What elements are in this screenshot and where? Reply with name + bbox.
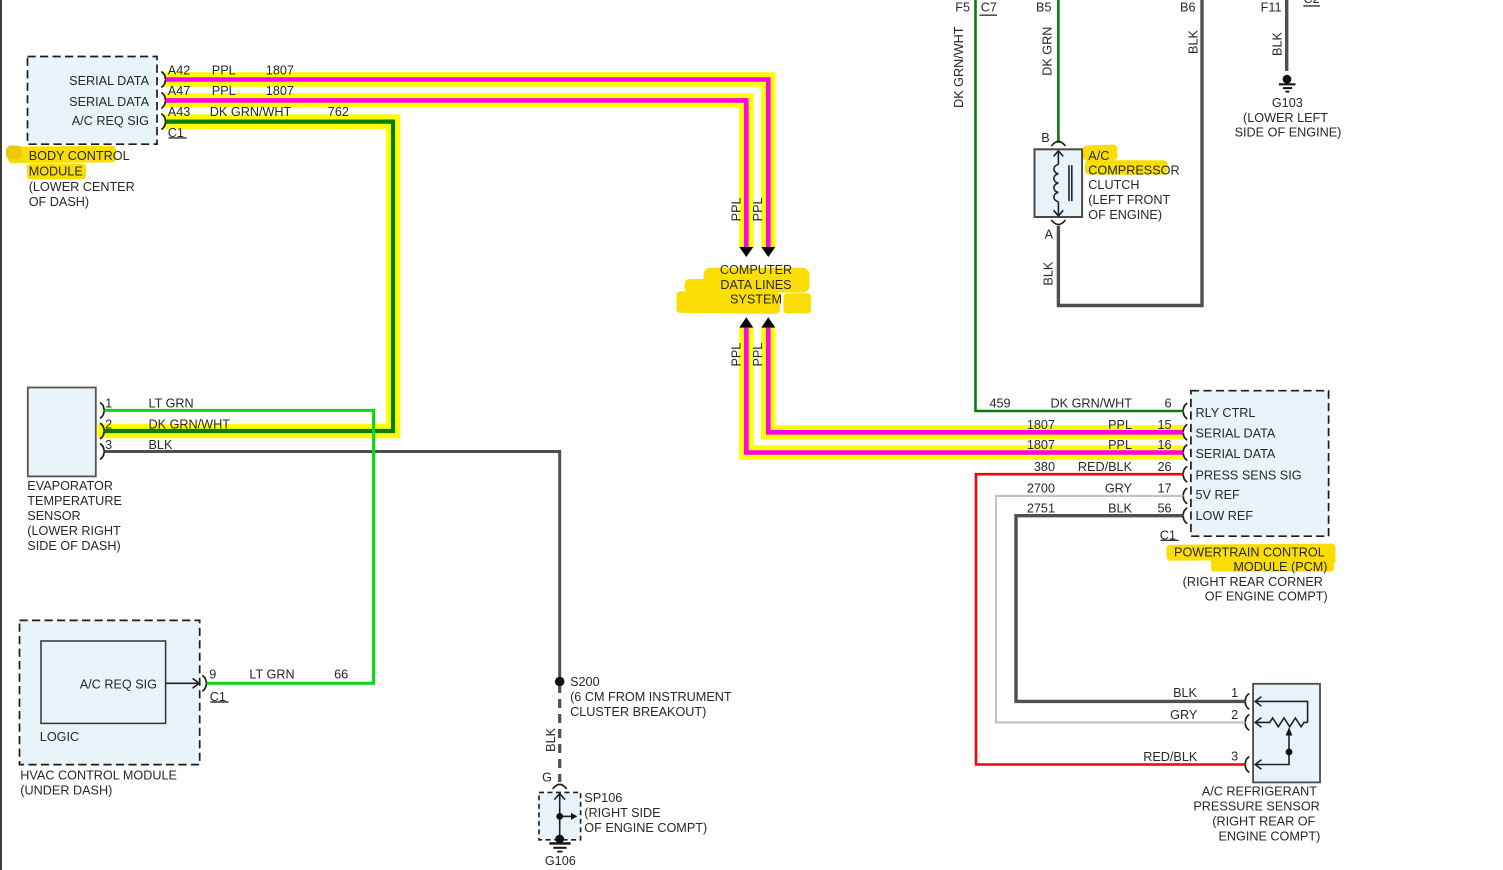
svg-text:(LOWER LEFT: (LOWER LEFT (1243, 111, 1328, 125)
svg-text:BLK: BLK (1186, 29, 1200, 53)
connector pin A at A/C compressor clutch (1052, 221, 1065, 225)
svg-text:S200: S200 (570, 675, 600, 689)
SP106 splice pack box (539, 792, 581, 839)
svg-text:9: 9 (209, 668, 216, 682)
svg-text:B6: B6 (1180, 0, 1195, 14)
svg-text:EVAPORATOR: EVAPORATOR (27, 479, 113, 493)
svg-text:66: 66 (334, 668, 348, 682)
svg-text:459: 459 (990, 396, 1011, 410)
svg-text:ENGINE COMPT): ENGINE COMPT) (1218, 830, 1320, 844)
BCM pin numbers and wire labels (168, 63, 349, 119)
wire: GRY 2700, PCM pin 17 to pressure sensor pin 2 (996, 496, 1246, 723)
arrowhead: serial data into computer data lines (right, up) (761, 317, 775, 327)
pressure sensor pin labels (1143, 686, 1238, 764)
svg-text:A47: A47 (168, 84, 191, 98)
svg-text:RLY CTRL: RLY CTRL (1196, 406, 1256, 420)
svg-text:5V REF: 5V REF (1196, 488, 1241, 502)
svg-text:CLUSTER BREAKOUT): CLUSTER BREAKOUT) (570, 705, 706, 719)
HVAC logic block (41, 641, 166, 723)
svg-text:(UNDER DASH): (UNDER DASH) (20, 784, 112, 798)
svg-text:15: 15 (1157, 418, 1171, 432)
svg-text:CLUTCH: CLUTCH (1088, 178, 1139, 192)
svg-text:PPL: PPL (1108, 438, 1132, 452)
svg-text:17: 17 (1157, 482, 1171, 496)
svg-text:PPL: PPL (212, 84, 236, 98)
svg-text:A/C REFRIGERANT: A/C REFRIGERANT (1202, 785, 1317, 799)
pressure sensor potentiometer symbol (1255, 697, 1307, 770)
svg-text:LOW REF: LOW REF (1196, 509, 1254, 523)
svg-text:2751: 2751 (1027, 501, 1055, 515)
evaporator sensor pin labels (105, 397, 230, 452)
svg-text:(LEFT FRONT: (LEFT FRONT (1088, 193, 1170, 207)
svg-text:GRY: GRY (1170, 708, 1198, 722)
PPL vertical wire labels (730, 197, 765, 366)
A/C compressor clutch box (1035, 149, 1083, 217)
svg-text:A: A (1045, 228, 1054, 242)
wire: RED/BLK 380, PCM pin 26 to pressure sensor pin 3 (976, 474, 1246, 764)
wire: DK GRN/WHT 459, fuse block F5/C7 to PCM pin 6 (RLY CTRL) (976, 0, 1184, 411)
node: COMPUTER DATA LINES SYSTEM (720, 263, 792, 306)
connector C1 pin 9 at HVAC control module (203, 676, 206, 691)
svg-text:RED/BLK: RED/BLK (1078, 460, 1133, 474)
evaporator sensor caption (27, 479, 122, 553)
svg-text:(LOWER RIGHT: (LOWER RIGHT (27, 524, 121, 538)
HVAC A/C REQ SIG output arrow (166, 678, 200, 688)
svg-text:TEMPERATURE: TEMPERATURE (27, 494, 122, 508)
svg-text:3: 3 (105, 438, 112, 452)
arrowhead: serial data into computer data lines (left, down) (739, 247, 753, 257)
PCM wire labels and pin numbers (990, 396, 1172, 515)
svg-text:DATA LINES: DATA LINES (720, 278, 791, 292)
svg-text:A/C REQ SIG: A/C REQ SIG (72, 114, 149, 128)
svg-text:BLK: BLK (1271, 31, 1285, 55)
connector C1 pins at PCM (1183, 404, 1186, 524)
svg-text:SERIAL DATA: SERIAL DATA (1196, 426, 1276, 440)
BCM pin name labels (69, 74, 149, 128)
svg-text:GRY: GRY (1105, 482, 1133, 496)
svg-text:G103: G103 (1272, 96, 1303, 110)
wire: PPL 1807 circuit, BCM A47 to PCM pin 16 (yellow highlighted) (165, 100, 1184, 452)
highlighter mark: COMPUTER DATA LINES SYSTEM label (676, 268, 811, 314)
svg-text:SIDE OF DASH): SIDE OF DASH) (27, 539, 120, 553)
svg-text:A42: A42 (168, 63, 191, 77)
connector pins at pressure sensor (1245, 694, 1248, 772)
PCM caption (1174, 546, 1328, 604)
wire: BLK, A/C compressor clutch pin A to connector B6 (1058, 0, 1202, 306)
arrowhead: serial data into computer data lines (right, down) (761, 247, 775, 257)
svg-text:SIDE OF ENGINE): SIDE OF ENGINE) (1235, 126, 1342, 140)
svg-text:BLK: BLK (1042, 261, 1056, 285)
svg-text:DK GRN/WHT: DK GRN/WHT (210, 105, 292, 119)
svg-text:LT GRN: LT GRN (249, 668, 294, 682)
svg-text:POWERTRAIN CONTROL: POWERTRAIN CONTROL (1174, 546, 1325, 560)
arrowhead: serial data into computer data lines (left, up) (739, 317, 753, 327)
svg-text:56: 56 (1157, 501, 1171, 515)
svg-text:2700: 2700 (1027, 482, 1055, 496)
svg-text:PPL: PPL (730, 197, 744, 221)
evaporator temperature sensor box (28, 388, 96, 477)
HVAC caption (20, 769, 177, 798)
svg-text:BLK: BLK (1108, 501, 1132, 515)
wire: BLK, evaporator temp sensor pin 3 to splice S200 (104, 452, 560, 682)
top connector labels F11 C2 (1261, 0, 1320, 14)
svg-text:SP106: SP106 (584, 791, 622, 805)
svg-text:(RIGHT REAR OF: (RIGHT REAR OF (1212, 815, 1315, 829)
wire: LT GRN 66, evaporator temp sensor pin 1 to HVAC control module pin 9 (104, 410, 374, 683)
svg-text:1: 1 (1231, 686, 1238, 700)
svg-text:26: 26 (1157, 460, 1171, 474)
svg-text:BLK: BLK (149, 438, 173, 452)
svg-text:HVAC CONTROL MODULE: HVAC CONTROL MODULE (20, 769, 177, 783)
svg-text:16: 16 (1157, 438, 1171, 452)
svg-text:PPL: PPL (751, 343, 765, 367)
ground G106 (549, 835, 570, 852)
connector C1 pins at BCM (162, 72, 165, 129)
svg-text:(LOWER CENTER: (LOWER CENTER (29, 180, 135, 194)
SP106 caption (584, 791, 707, 835)
svg-text:BLK: BLK (1173, 686, 1197, 700)
svg-text:SERIAL DATA: SERIAL DATA (69, 95, 149, 109)
svg-text:SERIAL DATA: SERIAL DATA (69, 74, 149, 88)
svg-text:SENSOR: SENSOR (27, 509, 80, 523)
connector G at SP106 (553, 784, 566, 788)
ground G103 labels (1235, 96, 1342, 140)
svg-text:1807: 1807 (266, 63, 294, 77)
svg-text:PRESSURE SENSOR: PRESSURE SENSOR (1193, 800, 1319, 814)
svg-text:2: 2 (105, 417, 112, 431)
svg-text:380: 380 (1034, 460, 1055, 474)
svg-text:PPL: PPL (212, 63, 236, 77)
svg-text:DK GRN/WHT: DK GRN/WHT (1051, 396, 1133, 410)
svg-text:DK GRN: DK GRN (1041, 27, 1055, 76)
svg-text:1807: 1807 (1027, 418, 1055, 432)
svg-text:A43: A43 (168, 105, 191, 119)
svg-text:(RIGHT REAR CORNER: (RIGHT REAR CORNER (1183, 575, 1323, 589)
splice S200 (555, 677, 565, 687)
svg-text:B: B (1041, 131, 1049, 145)
powertrain control module box (1191, 391, 1329, 537)
svg-text:DK GRN/WHT: DK GRN/WHT (149, 417, 231, 431)
BCM connector label C1 (168, 126, 187, 140)
A/C compressor clutch coil symbol (1054, 151, 1072, 216)
PCM connector label C1 (1160, 528, 1179, 542)
pressure sensor caption (1193, 785, 1320, 844)
svg-text:LT GRN: LT GRN (149, 397, 194, 411)
svg-text:A/C REQ SIG: A/C REQ SIG (80, 678, 157, 692)
A/C refrigerant pressure sensor box (1253, 684, 1320, 783)
svg-text:OF ENGINE COMPT): OF ENGINE COMPT) (1205, 590, 1328, 604)
wire: BLK dashed, S200 to SP106 splice pack (558, 684, 561, 782)
svg-text:G: G (542, 771, 552, 785)
body control module box (28, 57, 158, 145)
svg-text:BLK: BLK (544, 727, 558, 751)
svg-text:F5: F5 (955, 0, 970, 14)
svg-text:SERIAL DATA: SERIAL DATA (1196, 447, 1276, 461)
connector pin B at A/C compressor clutch (1052, 142, 1065, 146)
ground G103 (1279, 75, 1296, 92)
svg-text:1: 1 (105, 397, 112, 411)
HVAC connector label C1 (210, 690, 229, 704)
svg-text:LOGIC: LOGIC (40, 730, 79, 744)
svg-text:BODY CONTROL: BODY CONTROL (29, 149, 130, 163)
svg-text:1807: 1807 (1027, 438, 1055, 452)
svg-text:3: 3 (1231, 750, 1238, 764)
highlighter mark: BODY CONTROL MODULE label (6, 146, 116, 180)
svg-text:DK GRN/WHT: DK GRN/WHT (952, 26, 966, 108)
wire: DK GRN/WHT 762, BCM A43 to evaporator temp sensor pin 2 (yellow highlighted) (98, 122, 394, 431)
wire: BLK 2751, PCM pin 56 to pressure sensor pin 1 (1016, 516, 1246, 702)
svg-text:G106: G106 (545, 854, 576, 868)
wire: DK GRN, relay B5 to A/C compressor clutch pin B (1057, 0, 1060, 143)
svg-text:762: 762 (328, 105, 349, 119)
svg-text:PPL: PPL (1108, 418, 1132, 432)
svg-text:2: 2 (1231, 708, 1238, 722)
svg-text:OF ENGINE): OF ENGINE) (1088, 208, 1162, 222)
svg-text:B5: B5 (1036, 0, 1051, 14)
svg-text:PPL: PPL (730, 343, 744, 367)
svg-text:A/C: A/C (1088, 149, 1109, 163)
svg-text:F11: F11 (1261, 0, 1282, 14)
SP106 splice symbol (554, 794, 571, 839)
svg-text:COMPRESSOR: COMPRESSOR (1088, 163, 1179, 177)
svg-text:RED/BLK: RED/BLK (1143, 750, 1198, 764)
wire: PPL 1807 circuit, BCM A42 to PCM pin 15 (yellow highlighted) (165, 80, 1184, 433)
PCM pin name labels (1196, 406, 1302, 523)
svg-text:SYSTEM: SYSTEM (730, 292, 782, 306)
clutch caption (1088, 149, 1179, 222)
wire: BLK, connector F11 to ground G103 (1285, 0, 1288, 71)
svg-text:PPL: PPL (751, 197, 765, 221)
svg-text:1807: 1807 (266, 84, 294, 98)
svg-text:COMPUTER: COMPUTER (720, 263, 792, 277)
svg-text:OF DASH): OF DASH) (29, 195, 89, 209)
BCM caption (29, 149, 135, 209)
svg-text:C2: C2 (1304, 0, 1320, 6)
highlighter mark: A/C COMPRESSOR label (1083, 145, 1168, 175)
connector pins at evaporator temperature sensor (101, 403, 104, 459)
svg-text:C7: C7 (981, 0, 997, 14)
svg-text:MODULE (PCM): MODULE (PCM) (1233, 560, 1327, 574)
HVAC control module box (20, 620, 200, 764)
svg-text:MODULE: MODULE (29, 165, 83, 179)
svg-text:6: 6 (1164, 396, 1171, 410)
svg-text:(RIGHT SIDE: (RIGHT SIDE (584, 806, 660, 820)
svg-text:OF ENGINE COMPT): OF ENGINE COMPT) (584, 821, 707, 835)
splice S200 labels (570, 675, 732, 719)
highlighter mark: POWERTRAIN CONTROL MODULE (PCM) label (1166, 544, 1335, 572)
HVAC pin 9 and wire labels (209, 668, 348, 682)
svg-text:PRESS SENS SIG: PRESS SENS SIG (1196, 469, 1302, 483)
svg-text:(6 CM FROM INSTRUMENT: (6 CM FROM INSTRUMENT (570, 690, 732, 704)
top connector labels F5 C7 (955, 0, 997, 15)
